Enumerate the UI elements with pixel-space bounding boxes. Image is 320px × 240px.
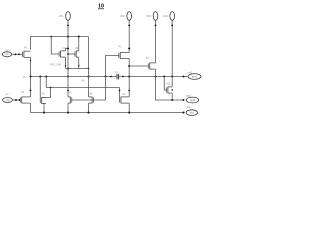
- wire N7 source to rail: [67, 103, 69, 113]
- transistor N7: [68, 97, 72, 104]
- svg-text:in2: in2: [6, 98, 10, 102]
- transistor P2: [148, 63, 155, 70]
- junction W1-N2drain branch: [45, 75, 47, 77]
- transistor N8: [89, 97, 94, 104]
- wire bus30 upper: [30, 57, 32, 97]
- wire N3 drain to bus68: [66, 49, 69, 51]
- wire T3 bus: [155, 26, 157, 63]
- junction W1-N10 gate: [163, 75, 165, 77]
- wire T4 bus: [171, 26, 173, 87]
- junction IN2 b: [19, 99, 21, 101]
- wire N7-N8 gate link: [72, 99, 94, 101]
- transistor P1: [119, 52, 129, 59]
- wire N2 drain to W3: [42, 88, 51, 98]
- transistor N9: [120, 97, 130, 104]
- junction bus68 W2a: [67, 67, 69, 69]
- junction T3 pin dot: [155, 24, 157, 26]
- junction rail-N2: [43, 112, 45, 114]
- junction IN1 a: [15, 53, 17, 55]
- junction T2-P1 drain: [128, 47, 130, 49]
- junction W1-bus88: [87, 75, 89, 77]
- junction bus68 N7 drain: [67, 90, 69, 92]
- transistor N10: [167, 87, 173, 94]
- wire IN2 to N1 gate: [13, 99, 21, 101]
- wire W2a: [66, 68, 89, 70]
- wire N3 source down to W2: [65, 57, 67, 68]
- wire P1 source down: [128, 59, 130, 97]
- wire IN1 to N0 gate: [12, 53, 23, 55]
- wire bus68 gate tap to N4: [68, 53, 75, 55]
- junction bus128 W2b: [128, 65, 130, 67]
- capacitor C1 plate A: [116, 74, 118, 80]
- terminal T4: [170, 12, 175, 21]
- svg-text:VD1: VD1: [59, 15, 64, 18]
- junction rail-N7: [67, 112, 69, 114]
- junction IN1 b: [18, 53, 20, 55]
- transistor N3: [59, 51, 65, 58]
- junction T1 pin dot: [67, 24, 69, 26]
- junction bus68 N3 drain: [67, 47, 69, 49]
- svg-text:PG_DN: PG_DN: [51, 62, 62, 66]
- junction rail1-bus68: [67, 36, 69, 38]
- wire N10 source to W4: [171, 93, 173, 100]
- junction rail end: [182, 112, 184, 114]
- wire T2 stub: [128, 20, 130, 26]
- terminal OUT1: [188, 74, 201, 80]
- terminal IN2: [3, 98, 13, 103]
- wire T1 stub: [67, 20, 69, 26]
- svg-text:vss: vss: [190, 112, 195, 115]
- wire N9 source to rail: [128, 103, 130, 113]
- junction rail-N9: [128, 112, 130, 114]
- terminal T2: [127, 12, 132, 21]
- wire riser 105.5: [94, 56, 119, 101]
- wire T3 stub: [155, 20, 157, 26]
- svg-text:N10: N10: [166, 84, 171, 86]
- wire P2 source down: [155, 69, 157, 76]
- wire top rail: [31, 37, 89, 50]
- junction W1-T3net: [154, 75, 156, 77]
- terminal T1: [66, 12, 71, 21]
- junction IN2 a: [15, 99, 17, 101]
- svg-text:VD3: VD3: [146, 15, 151, 18]
- wire bottom rail: [31, 112, 184, 114]
- svg-text:VD2: VD2: [120, 15, 125, 18]
- svg-text:PU: PU: [23, 76, 27, 79]
- junction bus128-N9 drain: [128, 90, 130, 92]
- transistor N0: [23, 51, 31, 58]
- wire W1 left: [31, 76, 118, 78]
- junction W3-N2 drain: [50, 87, 52, 89]
- junction rail1-N4 drain: [78, 36, 80, 38]
- wire bus88 from rail1 down: [88, 37, 90, 97]
- wire W3 from W1 to N9 gate: [46, 77, 119, 88]
- wire bus30 to rail bottom: [30, 103, 32, 112]
- wire W1 right: [119, 76, 188, 78]
- wire N2 gate from W1: [39, 77, 41, 99]
- junction bus68 N4 gate: [67, 53, 69, 55]
- junction bus68 W1: [67, 75, 69, 77]
- junction N9 gate riser: [119, 90, 121, 92]
- capacitor C1 plate B: [118, 74, 120, 80]
- arrow N4 source: [78, 65, 80, 67]
- junction T2 pin dot: [128, 24, 130, 26]
- junction W1 end: [182, 75, 184, 77]
- transistor N4: [75, 51, 79, 58]
- wire T3 net down to W4: [156, 77, 184, 101]
- terminal OUT2: [186, 97, 198, 103]
- svg-text:in1: in1: [5, 52, 9, 56]
- svg-text:out1: out1: [192, 74, 198, 78]
- wire gate drop to N3: [51, 37, 59, 54]
- transistor N1: [20, 97, 30, 104]
- svg-text:VD4: VD4: [163, 15, 168, 18]
- terminal IN1: [2, 52, 11, 57]
- junction W1-gate riser: [104, 75, 106, 77]
- wire T2 bus upper: [128, 26, 130, 52]
- junction W1 cap left: [110, 76, 112, 78]
- terminal T3: [153, 12, 158, 21]
- junction W2a bus88: [88, 68, 90, 70]
- terminal VSS: [186, 110, 197, 116]
- junction T4 pin dot: [171, 24, 173, 26]
- junction rail1-gate drop: [50, 36, 52, 38]
- wire bus68: [67, 26, 69, 97]
- junction bus30 N1 drain: [30, 89, 32, 91]
- junction W4-N10 source: [171, 99, 173, 101]
- arrow N3 source: [65, 65, 67, 67]
- junction rail-N8: [87, 112, 89, 114]
- junction W1 start: [29, 75, 31, 77]
- transistor N2: [40, 97, 46, 104]
- wire N8 source to rail: [88, 103, 90, 113]
- wire N4 drain up to rail1: [78, 37, 80, 51]
- junction N10 drain: [171, 89, 173, 91]
- junction W1-T4: [171, 75, 173, 77]
- wire N2 source to rail: [42, 104, 44, 113]
- wire N10 gate from W1: [164, 77, 166, 91]
- wire T4 stub: [171, 20, 173, 26]
- wire W2b: [129, 65, 148, 67]
- svg-text:out2: out2: [190, 98, 196, 102]
- junction W1-bus128: [128, 75, 130, 77]
- wire N4 source down to W2: [78, 57, 80, 68]
- junction W4 end: [182, 99, 184, 101]
- arrow N0 source: [30, 60, 32, 62]
- junction W1-N2gate: [39, 75, 41, 77]
- wire N9 gate riser: [119, 88, 121, 98]
- junction W1 cap right: [122, 76, 124, 78]
